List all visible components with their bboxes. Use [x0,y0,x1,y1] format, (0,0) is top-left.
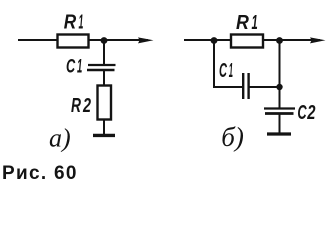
svg-text:б): б) [221,122,244,152]
svg-text:C: C [66,56,75,77]
svg-text:C: C [297,101,307,124]
svg-text:а): а) [49,124,71,153]
svg-text:2: 2 [82,93,91,116]
svg-text:1: 1 [229,60,233,82]
svg-text:R: R [236,12,249,34]
svg-text:2: 2 [306,101,315,124]
svg-text:Рис. 60: Рис. 60 [2,163,78,184]
svg-text:1: 1 [79,12,84,34]
svg-text:1: 1 [252,12,258,34]
svg-text:R: R [64,10,77,33]
svg-text:R: R [71,93,81,116]
svg-text:1: 1 [77,56,82,78]
svg-text:C: C [219,59,227,81]
